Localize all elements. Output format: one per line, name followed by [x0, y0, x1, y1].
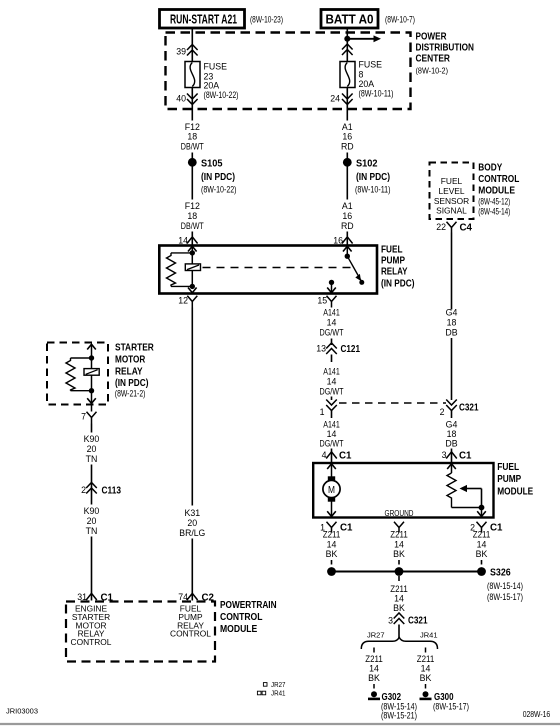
- pin 40: [176, 94, 197, 105]
- ground G302: [368, 691, 417, 720]
- svg-text:LEVEL: LEVEL: [438, 186, 464, 196]
- svg-text:SENSOR: SENSOR: [434, 196, 469, 206]
- svg-text:CENTER: CENTER: [416, 54, 451, 65]
- svg-text:14: 14: [327, 318, 337, 328]
- dashed link C321: [339, 402, 446, 404]
- wire pin7 to K90 label: [91, 424, 93, 433]
- svg-text:14: 14: [327, 429, 337, 439]
- pin 39: [176, 45, 197, 57]
- wire label A1 16 RD (lower): [341, 201, 354, 231]
- svg-text:DB/WT: DB/WT: [181, 221, 205, 231]
- splice S102: [343, 158, 391, 195]
- node coil top: [190, 250, 195, 255]
- svg-text:CONTROL: CONTROL: [478, 174, 519, 185]
- power distribution center dashed box: [166, 33, 411, 110]
- svg-text:TN: TN: [86, 526, 98, 536]
- svg-text:22: 22: [436, 222, 446, 232]
- svg-text:Z211: Z211: [390, 530, 408, 540]
- wire node to pin 2 with arrow: [477, 508, 486, 517]
- connector box BATT A0: [321, 10, 378, 29]
- svg-text:JR41: JR41: [271, 689, 286, 698]
- svg-text:K90: K90: [84, 434, 100, 444]
- wire C321 to A141 label: [331, 411, 333, 419]
- pin 1 C1: [320, 522, 353, 534]
- svg-text:20A: 20A: [204, 81, 220, 91]
- svg-text:C1: C1: [339, 451, 352, 462]
- wire resistor bottom to coil node: [171, 285, 192, 287]
- pin 22 C4: [436, 222, 472, 234]
- svg-text:RD: RD: [341, 221, 354, 231]
- relay pin 14 inner arrow: [188, 246, 197, 251]
- svg-text:(8W-10-7): (8W-10-7): [385, 15, 415, 25]
- wire K31 to PCM pin 74: [191, 539, 193, 601]
- connector box RUN-START A21: [160, 10, 245, 29]
- label POWER DISTRIBUTION CENTER: [416, 32, 475, 76]
- svg-text:14: 14: [394, 540, 404, 550]
- splice S105: [188, 158, 237, 195]
- svg-text:S105: S105: [201, 158, 223, 169]
- svg-text:(8W-10-22): (8W-10-22): [204, 90, 239, 100]
- svg-text:GROUND: GROUND: [385, 508, 414, 518]
- wire stub to splice right: [481, 560, 483, 565]
- wire C113 to K90 label: [91, 496, 93, 505]
- svg-text:C1: C1: [490, 523, 503, 534]
- wire label A1 16 RD (upper): [341, 122, 354, 152]
- label FUEL LEVEL SENSOR SIGNAL: [434, 176, 469, 216]
- svg-text:JR27: JR27: [367, 631, 385, 640]
- svg-text:BK: BK: [476, 549, 488, 559]
- svg-text:RELAY: RELAY: [115, 366, 143, 377]
- wire A141 to FPM pin 4: [331, 449, 333, 463]
- svg-text:A141: A141: [323, 420, 340, 430]
- svg-text:Z211: Z211: [473, 530, 491, 540]
- wire to C113: [91, 465, 93, 497]
- svg-text:F12: F12: [185, 122, 200, 132]
- svg-text:40: 40: [176, 94, 186, 104]
- svg-text:RD: RD: [341, 141, 354, 151]
- relay pin 16 inner arrow: [343, 246, 352, 251]
- svg-text:S102: S102: [356, 158, 378, 169]
- wire G4 to C321: [451, 338, 453, 400]
- svg-text:Z211: Z211: [365, 654, 383, 664]
- svg-text:CONTROL: CONTROL: [170, 629, 211, 639]
- wire BATT A0 to fuse 8: [346, 28, 348, 62]
- wire label Z211 14 BK (G302): [365, 654, 383, 683]
- svg-text:POWERTRAIN: POWERTRAIN: [220, 600, 277, 611]
- connector C321 pin 3: [388, 613, 428, 627]
- svg-text:MODULE: MODULE: [478, 185, 515, 196]
- node starter coil top: [89, 355, 94, 360]
- svg-text:STARTER: STARTER: [115, 343, 154, 354]
- svg-text:MODULE: MODULE: [220, 624, 258, 635]
- svg-text:C113: C113: [102, 486, 122, 497]
- wire label F12 18 DB/WT (upper): [181, 122, 205, 152]
- wire to C121: [331, 339, 333, 346]
- dashed stub right branch: [425, 648, 427, 653]
- svg-text:DG/WT: DG/WT: [320, 328, 345, 338]
- svg-text:MOTOR: MOTOR: [115, 355, 146, 366]
- wire pin16 stub: [346, 247, 348, 257]
- wire relay pin12 to K31 label: [191, 308, 193, 506]
- svg-text:BK: BK: [393, 549, 405, 559]
- svg-text:4: 4: [322, 450, 327, 460]
- svg-text:(IN PDC): (IN PDC): [356, 172, 390, 183]
- svg-text:20A: 20A: [359, 79, 375, 89]
- wire coil top to resistor: [71, 357, 92, 359]
- svg-text:BATT A0: BATT A0: [326, 13, 374, 27]
- svg-text:(8W-15-17): (8W-15-17): [433, 702, 469, 712]
- fuel pump module box: [313, 463, 493, 518]
- connector C121 pin 13: [316, 343, 360, 362]
- label S326: [487, 568, 523, 603]
- svg-text:BK: BK: [393, 603, 405, 613]
- label FUEL PUMP RELAY (IN PDC): [381, 245, 415, 290]
- wire pin3 to sender resistor: [451, 464, 453, 473]
- wire C321 to G4 lower label: [451, 411, 453, 419]
- wire fuse 8 to A1 label: [346, 88, 348, 121]
- svg-text:18: 18: [187, 132, 197, 142]
- node junction on A1 feed: [344, 36, 350, 42]
- svg-text:F12: F12: [185, 201, 200, 211]
- wire coil vertical: [91, 358, 93, 391]
- svg-text:14: 14: [477, 540, 487, 550]
- pin 14: [178, 236, 197, 246]
- svg-text:RELAY: RELAY: [381, 266, 408, 277]
- svg-text:14: 14: [369, 664, 379, 674]
- connector C321 pin 1: [320, 400, 337, 418]
- svg-text:(8W-10-11): (8W-10-11): [359, 89, 394, 99]
- relay pin 12 inner arrow: [188, 288, 197, 293]
- svg-text:2: 2: [81, 485, 86, 495]
- wire label A141 14 DG/WT (block 1): [320, 308, 345, 338]
- svg-text:14: 14: [421, 664, 431, 674]
- arrow feed to right: [347, 35, 381, 42]
- wire stub to splice left: [331, 560, 333, 565]
- powertrain control module dashed box: [66, 602, 215, 662]
- svg-text:FUEL: FUEL: [381, 245, 403, 256]
- connector C321 pin 2: [440, 400, 479, 418]
- node starter coil bottom: [89, 388, 94, 393]
- wire G4 to FPM pin 3: [451, 449, 453, 463]
- svg-text:POWER: POWER: [416, 32, 448, 43]
- svg-text:C1: C1: [459, 451, 472, 462]
- motor M1: [323, 476, 340, 501]
- svg-text:18: 18: [447, 429, 457, 439]
- svg-text:C4: C4: [460, 223, 473, 234]
- connector C113: [81, 483, 121, 497]
- wire S102 down: [346, 162, 348, 199]
- svg-text:K31: K31: [184, 508, 200, 518]
- wire label A141 14 DG/WT (block 2): [320, 367, 345, 397]
- svg-text:DB/WT: DB/WT: [181, 141, 205, 151]
- svg-text:15: 15: [317, 296, 327, 306]
- ground G300: [420, 691, 470, 711]
- svg-text:(8W-45-12): (8W-45-12): [478, 197, 510, 207]
- pin 24: [330, 94, 352, 105]
- svg-text:(8W-10-22): (8W-10-22): [201, 185, 237, 195]
- svg-text:(IN PDC): (IN PDC): [381, 279, 415, 290]
- svg-text:SIGNAL: SIGNAL: [436, 206, 467, 216]
- svg-text:(8W-10-2): (8W-10-2): [416, 66, 449, 76]
- wire pin14 to coil node: [191, 247, 193, 287]
- label FUEL PUMP RELAY CONTROL: [170, 604, 211, 639]
- svg-text:7: 7: [81, 411, 86, 421]
- svg-text:14: 14: [394, 594, 404, 604]
- svg-text:1: 1: [320, 407, 325, 417]
- svg-text:PUMP: PUMP: [381, 255, 405, 266]
- wire pin4 to motor: [331, 464, 333, 477]
- svg-text:DG/WT: DG/WT: [320, 439, 345, 449]
- label FUSE 8 20A (8W-10-11): [359, 60, 394, 99]
- starter relay top arrow: [87, 344, 96, 358]
- svg-text:G4: G4: [446, 308, 458, 318]
- legend JR27: [263, 680, 285, 689]
- svg-text:14: 14: [327, 377, 337, 387]
- node coil bottom: [190, 284, 195, 289]
- svg-text:K90: K90: [84, 506, 100, 516]
- svg-text:20: 20: [87, 444, 97, 454]
- wire label Z211 14 BK (below splice): [390, 584, 408, 613]
- svg-text:3: 3: [442, 450, 447, 460]
- svg-text:16: 16: [342, 211, 352, 221]
- pin 31 C1: [77, 592, 113, 604]
- wire label Z211 14 BK (pin2): [473, 530, 491, 560]
- FPM pin 4 inner arrow: [327, 464, 336, 469]
- svg-text:(8W-10-23): (8W-10-23): [250, 15, 283, 25]
- svg-text:A141: A141: [323, 308, 340, 318]
- dashed stub to G300: [425, 684, 427, 689]
- relay pin 15 inner arrow: [327, 282, 336, 292]
- wire label A141 14 DG/WT (block 3): [320, 420, 345, 449]
- dashed link coil to switch: [203, 267, 352, 269]
- wire label G4 18 DB (lower): [445, 420, 457, 449]
- pin 15: [317, 296, 336, 308]
- wire fuse 23 to F12 label: [191, 88, 193, 121]
- svg-text:16: 16: [333, 236, 343, 246]
- svg-text:Z211: Z211: [390, 584, 408, 594]
- wire motor to pin 1 with arrow: [327, 502, 336, 517]
- pin ground mid: [394, 522, 404, 533]
- wire coil top to resistor: [171, 252, 192, 254]
- svg-text:8: 8: [359, 70, 364, 80]
- svg-text:20: 20: [187, 518, 197, 528]
- resistor relay shunt: [167, 253, 176, 287]
- wire label G4 18 DB (upper): [445, 308, 457, 338]
- label BODY CONTROL MODULE: [478, 162, 519, 216]
- wire stub above S105: [191, 153, 193, 159]
- label STARTER MOTOR RELAY (IN PDC) (8W-21-2): [115, 343, 155, 399]
- label ENGINE STARTER MOTOR RELAY CONTROL: [71, 604, 112, 648]
- label POWERTRAIN CONTROL MODULE: [220, 600, 277, 635]
- resistor starter shunt: [66, 358, 75, 391]
- svg-text:JR41: JR41: [420, 631, 438, 640]
- svg-text:13: 13: [316, 344, 326, 354]
- wire label K90 20 TN (upper): [84, 434, 100, 464]
- wire label Z211 14 BK (pin1): [323, 530, 341, 560]
- legend JR41: [257, 689, 285, 698]
- svg-text:FUSE: FUSE: [204, 62, 228, 72]
- wire label K31 20 BR/LG: [179, 508, 205, 538]
- wire label K90 20 TN (lower): [84, 506, 100, 536]
- wire stub to splice mid: [398, 560, 400, 565]
- pin 7: [81, 405, 96, 424]
- svg-text:TN: TN: [86, 454, 98, 464]
- pin 4 C1: [322, 450, 352, 462]
- svg-text:DISTRIBUTION: DISTRIBUTION: [416, 43, 475, 54]
- node sender output: [479, 505, 485, 511]
- sender wiper arrow: [460, 485, 482, 508]
- wire label Z211 14 BK (G300): [417, 654, 435, 683]
- fuel level sender resistor: [447, 473, 456, 508]
- svg-text:BODY: BODY: [478, 162, 502, 173]
- svg-text:(8W-15-17): (8W-15-17): [487, 592, 523, 602]
- svg-text:3: 3: [388, 616, 393, 626]
- svg-text:CONTROL: CONTROL: [71, 637, 112, 647]
- svg-text:RUN-START A21: RUN-START A21: [170, 13, 237, 27]
- svg-text:PUMP: PUMP: [497, 474, 521, 485]
- starter relay bottom arrow: [87, 391, 96, 404]
- svg-text:MODULE: MODULE: [497, 486, 533, 497]
- svg-text:A1: A1: [342, 201, 353, 211]
- fuel pump relay box U-FPR: [159, 246, 377, 294]
- svg-text:DB: DB: [445, 328, 457, 338]
- svg-text:BK: BK: [368, 673, 380, 683]
- svg-text:M: M: [328, 485, 335, 496]
- svg-text:FUEL: FUEL: [441, 176, 463, 186]
- FPM pin 3 inner arrow: [447, 464, 456, 469]
- svg-text:39: 39: [176, 47, 186, 57]
- wire RUN-START to fuse 23: [191, 28, 193, 62]
- svg-text:C1: C1: [340, 523, 353, 534]
- svg-text:14: 14: [178, 236, 188, 246]
- wire stub below splice: [398, 576, 400, 581]
- pin 3 C1: [442, 450, 472, 462]
- wire C321 to brace: [398, 625, 400, 639]
- svg-text:S326: S326: [490, 568, 511, 579]
- svg-text:G4: G4: [446, 420, 458, 430]
- node switch pivot: [345, 254, 350, 259]
- svg-text:BK: BK: [326, 549, 338, 559]
- svg-text:A141: A141: [323, 367, 340, 377]
- svg-text:BR/LG: BR/LG: [179, 528, 205, 538]
- svg-text:(IN PDC): (IN PDC): [201, 172, 235, 183]
- wire sender bottom to pin 2: [452, 507, 482, 509]
- svg-text:(8W-45-14): (8W-45-14): [478, 207, 510, 217]
- wire BCM pin22 to G4 label: [451, 233, 453, 310]
- svg-text:DG/WT: DG/WT: [320, 387, 345, 397]
- svg-text:Z211: Z211: [323, 530, 341, 540]
- label FUEL PUMP MODULE: [497, 462, 533, 497]
- pin 74 C2: [178, 592, 214, 604]
- svg-text:FUEL: FUEL: [497, 462, 519, 473]
- svg-text:A1: A1: [342, 122, 353, 132]
- svg-text:C121: C121: [341, 344, 361, 355]
- brace split JR27/JR41: [361, 637, 437, 649]
- svg-text:24: 24: [330, 94, 340, 104]
- body control module dashed box: [430, 163, 474, 220]
- fuse F8: [340, 62, 355, 88]
- dashed stub to G302: [373, 684, 375, 689]
- svg-text:(8W-10-11): (8W-10-11): [355, 185, 391, 195]
- wire to relay pin 16: [346, 232, 348, 246]
- svg-text:(8W-15-21): (8W-15-21): [381, 711, 417, 721]
- pin 2 C1: [470, 522, 503, 534]
- svg-text:20: 20: [87, 516, 97, 526]
- svg-text:12: 12: [178, 296, 188, 306]
- svg-text:FUSE: FUSE: [359, 60, 383, 70]
- splice S326 bus: [327, 567, 486, 576]
- switch blade: [347, 256, 364, 285]
- footer separator: [0, 723, 560, 725]
- svg-text:C321: C321: [459, 403, 479, 414]
- node pin 15 terminal: [329, 280, 334, 285]
- svg-text:18: 18: [447, 318, 457, 328]
- label FUSE 23 20A (8W-10-22): [204, 62, 239, 101]
- pin 12: [178, 296, 197, 308]
- svg-text:028W-16: 028W-16: [523, 709, 551, 719]
- pin 16: [333, 236, 352, 246]
- svg-text:JRI03003: JRI03003: [6, 707, 38, 716]
- svg-text:BK: BK: [420, 673, 432, 683]
- svg-text:14: 14: [327, 540, 337, 550]
- svg-text:(8W-21-2): (8W-21-2): [115, 389, 146, 399]
- svg-text:DB: DB: [445, 439, 457, 449]
- wire label F12 18 DB/WT (lower): [181, 201, 205, 231]
- svg-text:C321: C321: [408, 616, 428, 627]
- svg-text:16: 16: [342, 132, 352, 142]
- svg-text:Z211: Z211: [417, 654, 435, 664]
- svg-text:(8W-15-14): (8W-15-14): [487, 581, 523, 591]
- wire to C321 pin 1: [331, 397, 333, 401]
- dashed stub left branch: [373, 648, 375, 653]
- svg-text:18: 18: [187, 211, 197, 221]
- wire stub above S102: [346, 153, 348, 159]
- wire S105 down: [191, 162, 193, 199]
- svg-text:2: 2: [440, 407, 445, 417]
- wire resistor bottom to coil node: [71, 390, 92, 392]
- wire label Z211 14 BK (mid): [390, 530, 408, 560]
- starter relay coil: [84, 369, 99, 376]
- wire K90 to PCM pin 31: [91, 537, 93, 601]
- svg-text:(IN PDC): (IN PDC): [115, 378, 149, 389]
- starter motor relay dashed box: [47, 343, 108, 405]
- relay coil K1: [185, 264, 200, 271]
- svg-text:CONTROL: CONTROL: [220, 612, 263, 623]
- connector chevrons above fuse 8: [342, 44, 353, 55]
- fuse F23: [185, 62, 200, 88]
- wire to relay pin 14: [191, 232, 193, 246]
